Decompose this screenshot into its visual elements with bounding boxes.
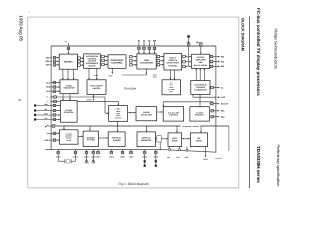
wire clock to divider [78,135,82,137]
svg-text:VDDD: VDDD [120,155,126,158]
svg-text:WHITE POINT: WHITE POINT [167,62,180,65]
pin bottom VDDP [144,149,146,151]
wire rgb chain [78,57,81,59]
block U3 contrast control [108,55,126,69]
wire B to white point [88,68,90,79]
block U17 divider system [83,131,98,146]
wire calibration to flash [199,94,201,106]
svg-text:DRIVE: DRIVE [196,140,202,143]
wire drop to rail [186,147,188,151]
svg-text:Philips Semiconductors: Philips Semiconductors [274,29,279,69]
block U20 buffer [157,136,162,142]
svg-text:VSSD: VSSD [96,155,101,158]
wire loop top route [163,101,213,103]
svg-text:9: 9 [18,99,22,101]
pin SCL [34,109,36,111]
wire buffer to vert drive [161,138,167,140]
svg-text:YIN: YIN [46,56,50,59]
svg-text:OUTPUT: OUTPUT [197,56,206,59]
svg-text:CONTROL: CONTROL [168,64,178,67]
svg-text:DECD: DECD [84,155,90,158]
wire A to sync selector [73,69,75,79]
wire C ref down [111,68,113,73]
wire calibration to output [199,69,201,80]
svg-text:TDA9330H series: TDA9330H series [256,146,261,183]
wire drop to rail [168,147,170,151]
svg-text:AMPLIFIER: AMPLIFIER [196,59,207,62]
svg-text:DRIVE: DRIVE [172,140,178,143]
block U1 matrix [59,54,77,69]
label geometry control [181,124,202,127]
wire A to sync selector [62,69,64,79]
wire D down left [146,69,148,75]
header rule [249,17,251,189]
wire phase to loop [157,111,163,113]
wire calibration to output [203,69,205,80]
pin bottom VDDD [122,149,124,151]
svg-text:I.REF: I.REF [108,74,112,77]
pin BO output [210,65,213,67]
wire rgb chain [102,55,105,57]
pin bottom VSSA [92,149,94,151]
wires vert drive / EW facing [182,138,191,140]
wire E to PLL [174,70,176,79]
pin bottom VSSD [97,149,99,151]
svg-text:PROTECT.: PROTECT. [195,114,205,117]
pin bottom DECB [155,149,157,151]
svg-text:LIMITER: LIMITER [93,87,101,90]
svg-text:SYSTEM: SYSTEM [87,139,95,142]
svg-text:STRETCH: STRETCH [168,59,177,62]
wire vert geometry to buffer [155,138,158,140]
ground fork [86,154,88,160]
block U4 RGB switch [137,54,156,69]
svg-text:BLACK LEVEL: BLACK LEVEL [194,64,208,67]
svg-text:CONTROL: CONTROL [169,114,179,117]
wire divider sys to vertical [99,137,108,139]
svg-text:VD1: VD1 [167,156,170,159]
svg-text:RO: RO [221,55,224,58]
block U9 PLL select [162,80,181,95]
pin SEL1 out [211,110,214,112]
figure frame [28,17,239,188]
svg-text:VDDA: VDDA [109,155,115,158]
svg-text:GEOMETRY: GEOMETRY [141,139,152,142]
wire E to G [183,65,186,67]
pin HOUT down [205,147,207,157]
block U12 H/V divider [109,106,128,122]
wire calibration to output [195,69,197,80]
pin SDA [34,104,36,106]
svg-text:TDA9330H: TDA9330H [124,88,137,91]
svg-text:VD2: VD2 [176,156,179,159]
wire right drop from top bus [215,46,217,152]
svg-text:AND: AND [199,61,204,64]
pin switch input [45,125,48,128]
wire bus drop [200,125,201,126]
wire E to PLL [170,70,172,79]
block U15 flash protection [190,107,210,121]
wire E to G [183,61,186,63]
svg-text:BO: BO [221,65,224,68]
wire rgb chain [130,64,133,66]
ground fork [92,154,94,160]
wire E to G [183,55,186,57]
pin bottom XTALI [57,149,59,151]
wire rgb chain [157,55,160,57]
svg-text:XTALO: XTALO [73,155,79,158]
pin RO output [210,55,213,57]
wire drop to rail [159,142,161,150]
wire drop to rail [179,147,181,151]
wire divider to phase [128,112,136,114]
svg-text:H-DRV: H-DRV [86,99,92,102]
block U14 second loop [163,107,184,121]
svg-text:CONTROL: CONTROL [111,62,123,65]
wire rgb chain [102,63,105,65]
wire divider down [117,121,119,131]
wire rgb chain [78,60,81,62]
block U18 vertical divider [108,132,125,147]
block U2 saturation control [84,54,101,68]
svg-text:SCL: SCL [44,108,47,111]
pin RAS [34,114,36,116]
svg-text:CALIBRATION: CALIBRATION [194,89,207,92]
block U22 EW geometry [190,133,207,147]
block U10 cathode calibration [191,81,210,95]
svg-text:CONTINUOUS: CONTINUOUS [194,83,207,86]
svg-text:MATRIX: MATRIX [88,65,96,68]
svg-text:BLOCK DIAGRAM: BLOCK DIAGRAM [241,18,245,51]
svg-text:UIN: UIN [45,60,49,63]
wire bus drop [63,125,64,126]
svg-text:MGB519: MGB519 [215,157,222,160]
block U7 sync selector [60,80,78,94]
wire A to sync selector [67,69,69,79]
svg-text:DIVIDER: DIVIDER [113,139,121,142]
svg-text:SE2: SE2 [221,115,225,118]
wire bus drop [89,125,90,126]
wire rgb chain [78,64,81,66]
svg-text:CONTROL: CONTROL [64,111,74,114]
svg-text:VIN: VIN [46,64,50,67]
wire left drop from top bus [50,46,52,149]
wire sync to control [62,94,64,100]
svg-text:DECB: DECB [153,155,159,158]
wire bus drop [146,125,147,126]
wire rgb chain [130,60,133,62]
crystal X1 [57,154,59,161]
block U13 phase detector [136,107,157,121]
svg-text:BLACK: BLACK [170,56,177,59]
pin GO output [210,61,213,63]
svg-text:GO: GO [221,60,225,63]
wire sync to control [69,94,71,100]
wire rgb chain [102,59,105,61]
svg-text:VG2: VG2 [221,96,225,99]
supply pad [155,154,157,160]
pin bottom VSSP [130,149,132,151]
wire rgb chain [130,55,133,57]
svg-text:SELECTOR: SELECTOR [64,87,75,90]
wire calibration bottom to right vertical [192,94,194,97]
wire rgb chain [157,60,160,62]
wire control to divider [77,100,118,102]
supply pad [144,154,146,160]
svg-text:MATRIX: MATRIX [64,60,73,63]
block U5 white point control [164,54,182,71]
wire top bus [51,45,216,47]
svg-text:CONVERTER: CONVERTER [140,61,154,64]
wire geometry bus [56,125,229,127]
svg-text:CATHODE: CATHODE [196,86,206,89]
wire bus drop [176,125,177,126]
svg-text:Preliminary specification: Preliminary specification [276,145,281,187]
pin PSL [187,35,190,37]
wire rgb chain [157,64,160,66]
svg-text:DETECTOR: DETECTOR [141,114,152,117]
wire B to white point [96,68,98,79]
pin CL out [211,86,214,88]
block U8 peak white limiter [87,80,106,95]
pin BLKOUT [211,103,214,105]
svg-text:1999 Aug 05: 1999 Aug 05 [18,15,23,41]
svg-text:BLKOUT: BLKOUT [221,102,229,105]
block U11 I2C control [60,101,77,123]
pin bottom DECD [86,149,88,151]
svg-text:I²C-bus controlled TV display: I²C-bus controlled TV display processors [256,8,261,96]
block U16 clock generation [60,130,79,144]
pin SEL2 out [211,116,214,118]
pin bottom VDDA [110,149,112,151]
block U6 output amplifier [192,54,210,68]
pin VG2 in [217,96,220,98]
block U21 vertical driver [168,133,182,147]
svg-text:Fig.1 Block diagram.: Fig.1 Block diagram. [119,182,150,186]
block U19 vertical geometry [137,132,156,147]
pin bottom XTALO [75,149,77,151]
wire white point down [92,96,94,102]
svg-text:LOOP: LOOP [66,139,72,142]
wire bottom rail [45,148,160,150]
pin INT [34,118,36,120]
